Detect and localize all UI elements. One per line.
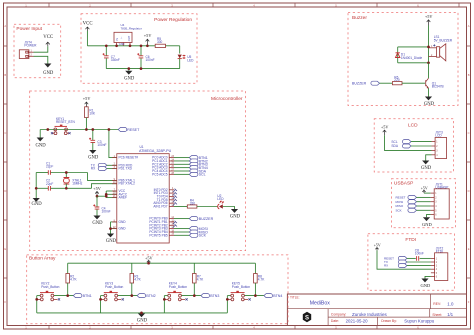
svg-text:2021-05-20: 2021-05-20 xyxy=(346,318,369,323)
resistor R4 330 xyxy=(187,205,197,208)
svg-text:GND: GND xyxy=(421,283,431,288)
ground xyxy=(421,279,428,283)
svg-text:RESET_BTN: RESET_BTN xyxy=(56,120,75,124)
power VCC xyxy=(46,42,50,46)
left zone letters xyxy=(4,24,6,304)
svg-text:Supun Kuruppu: Supun Kuruppu xyxy=(404,319,434,324)
svg-text:+5V: +5V xyxy=(425,14,434,19)
wire pin 4 to ground xyxy=(426,155,432,161)
svg-text:GND: GND xyxy=(421,166,432,171)
svg-text:BC547B: BC547B xyxy=(432,85,444,89)
svg-text:Company:: Company: xyxy=(331,313,347,317)
svg-text:220: 220 xyxy=(394,78,400,82)
svg-text:LCD: LCD xyxy=(435,134,442,138)
svg-text:C: C xyxy=(4,131,6,135)
ground xyxy=(44,64,51,68)
wire RESET through C8 xyxy=(407,257,416,259)
svg-text:A: A xyxy=(4,24,6,28)
wire TX to pin 2 xyxy=(407,261,431,263)
section box FTDI xyxy=(368,234,455,290)
wire TX to pin 2 xyxy=(107,164,117,166)
svg-text:1N4001_Diode: 1N4001_Diode xyxy=(401,56,422,60)
ground xyxy=(89,150,96,154)
svg-text:1/1: 1/1 xyxy=(447,312,453,317)
svg-text:7805_Regulator: 7805_Regulator xyxy=(121,26,142,30)
resistor R7 4.7K xyxy=(193,263,195,273)
wire button to ground rail xyxy=(226,296,228,313)
svg-text:SDA: SDA xyxy=(391,144,398,148)
wire R4 to LED xyxy=(197,206,218,208)
pin names right xyxy=(149,156,167,238)
section box Power Input xyxy=(14,24,61,78)
wire xtal2 to pin 10 xyxy=(92,184,117,189)
svg-text:GND: GND xyxy=(119,220,127,224)
svg-text:Microcontroller: Microcontroller xyxy=(211,96,243,102)
svg-text:+5V: +5V xyxy=(374,244,381,248)
svg-text:USBASP: USBASP xyxy=(394,180,413,186)
wire to GND xyxy=(34,56,48,63)
svg-text:+5V: +5V xyxy=(83,96,92,101)
svg-text:POWER: POWER xyxy=(24,43,37,47)
resistor R1 10K xyxy=(85,107,89,118)
svg-text:330: 330 xyxy=(157,40,163,44)
bottom edge zone ticks xyxy=(49,326,377,330)
svg-text:BUZZER: BUZZER xyxy=(199,217,214,221)
svg-text:PC6 RESET#: PC6 RESET# xyxy=(119,156,139,160)
svg-text:PB7 XTAL2: PB7 XTAL2 xyxy=(119,182,136,186)
section box LCD xyxy=(374,119,453,172)
svg-text:4.7K: 4.7K xyxy=(134,278,141,282)
svg-text:100nF: 100nF xyxy=(97,143,106,147)
svg-text:GND: GND xyxy=(119,42,125,46)
company logo S xyxy=(303,312,311,322)
global label BTN4 xyxy=(264,294,273,298)
svg-text:1.0: 1.0 xyxy=(447,301,454,306)
ground xyxy=(93,216,100,220)
svg-text:LED: LED xyxy=(187,58,194,62)
wire ground rail xyxy=(106,68,179,70)
wire SCL to pin 1 xyxy=(411,141,432,143)
title block outline xyxy=(287,294,466,326)
ground xyxy=(107,234,114,238)
svg-text:VCC: VCC xyxy=(43,35,53,40)
capacitor C7 330nF xyxy=(105,46,107,56)
svg-text:Push_Button: Push_Button xyxy=(232,285,250,289)
resistor R5 330 xyxy=(155,44,165,47)
svg-text:REV:: REV: xyxy=(433,302,441,306)
pin 1 xyxy=(29,51,34,53)
svg-text:GND: GND xyxy=(119,227,127,231)
wire VCC to rail xyxy=(86,31,88,46)
bottom zone numbers xyxy=(25,326,419,330)
wire RX to pin 3 xyxy=(107,168,117,170)
wire R6 to base xyxy=(402,82,425,84)
wire output rail xyxy=(166,45,180,47)
resistor R8 4.7K xyxy=(254,263,256,273)
svg-text:22pF: 22pF xyxy=(46,165,53,169)
wires labels to connector xyxy=(417,197,431,210)
svg-text:GND: GND xyxy=(137,319,148,324)
global label BTN2 xyxy=(189,159,198,163)
wire +5V down xyxy=(428,26,430,63)
global label MISO xyxy=(189,230,198,234)
wire PB3 to MOSI xyxy=(174,228,189,230)
resistor R3 4.7K xyxy=(131,263,133,273)
svg-text:330nF: 330nF xyxy=(111,58,120,62)
svg-text:GND: GND xyxy=(92,221,103,226)
svg-text:Date:: Date: xyxy=(331,319,339,323)
ground xyxy=(138,313,145,317)
title block REV column divider xyxy=(430,294,432,309)
svg-text:330: 330 xyxy=(190,202,196,206)
wire diode top xyxy=(398,46,429,48)
wire +5V to pin 3 xyxy=(385,135,432,150)
ground xyxy=(423,217,430,221)
svg-text:GND: GND xyxy=(424,102,435,107)
svg-text:+5V: +5V xyxy=(145,256,154,261)
wire reset net xyxy=(40,129,118,131)
resistor R6 220 xyxy=(392,82,402,85)
ground xyxy=(231,209,238,213)
svg-text:PD1 TXD: PD1 TXD xyxy=(119,167,133,171)
svg-text:GND: GND xyxy=(43,71,54,76)
svg-text:BTN3: BTN3 xyxy=(210,294,219,298)
wire pin 6 to ground xyxy=(427,215,431,218)
svg-text:4.7K: 4.7K xyxy=(70,278,77,282)
svg-text:E: E xyxy=(468,247,470,251)
wire button to ground rail xyxy=(163,296,165,313)
ground xyxy=(33,198,40,202)
svg-text:BUZZER: BUZZER xyxy=(352,82,367,86)
wire pin 6 to ground xyxy=(425,276,431,278)
wire R1 to reset net xyxy=(85,118,87,130)
wire +5V to pin 4 xyxy=(377,250,431,269)
svg-text:LCD: LCD xyxy=(408,122,418,128)
svg-text:A: A xyxy=(468,24,470,28)
top edge zone ticks xyxy=(49,3,459,7)
svg-text:100nF: 100nF xyxy=(102,210,111,214)
svg-text:Drawn By:: Drawn By: xyxy=(381,319,397,323)
LED U2 xyxy=(219,204,223,208)
svg-text:OUT: OUT xyxy=(127,35,131,41)
wire PB4 to MISO xyxy=(174,231,189,233)
wire +5V to pin 1 xyxy=(424,192,431,194)
title block Sheet column divider xyxy=(429,309,431,317)
global label SCL xyxy=(189,172,198,176)
svg-text:GND: GND xyxy=(106,239,117,244)
svg-text:FTDI: FTDI xyxy=(405,237,416,243)
global label SDA xyxy=(189,169,198,173)
title block row divider 2 xyxy=(328,316,466,318)
wire SDA to pin 2 xyxy=(411,145,432,147)
wire AIN1 PD7 to R4 xyxy=(174,206,187,208)
svg-text:TITLE:: TITLE: xyxy=(290,296,300,300)
svg-text:RESET: RESET xyxy=(127,128,140,132)
svg-text:AREF: AREF xyxy=(119,196,128,200)
pin 2 xyxy=(29,55,34,57)
svg-text:5V_BUZZER: 5V_BUZZER xyxy=(434,38,453,42)
ground xyxy=(39,130,41,138)
svg-text:GND: GND xyxy=(230,215,241,220)
connector JST4 xyxy=(19,50,29,59)
section box Button Array xyxy=(27,255,288,324)
title block logo cell divider xyxy=(327,309,329,326)
wire PB5 to SCK xyxy=(174,234,189,236)
svg-text:Zuroke Industries: Zuroke Industries xyxy=(352,312,388,317)
svg-text:MediBox: MediBox xyxy=(310,301,331,307)
transistor Q1 BC547B xyxy=(425,80,427,86)
svg-text:+5V: +5V xyxy=(93,186,102,191)
svg-text:PC5 ADC5: PC5 ADC5 xyxy=(152,172,168,176)
svg-text:ATMEGA_328P-PU: ATMEGA_328P-PU xyxy=(139,149,172,153)
svg-text:22pF: 22pF xyxy=(46,182,53,186)
capacitor C4 100nF xyxy=(96,196,98,207)
svg-text:Push_Button: Push_Button xyxy=(41,285,59,289)
global label BTN3 xyxy=(189,162,198,166)
regulator U4 7805 xyxy=(114,32,132,42)
svg-text:GND: GND xyxy=(124,76,135,81)
svg-text:GND: GND xyxy=(32,202,43,207)
svg-text:RX: RX xyxy=(384,264,388,268)
wire PB0 to BUZZER xyxy=(174,218,189,220)
svg-text:SCL: SCL xyxy=(199,173,206,177)
svg-text:16MHz: 16MHz xyxy=(72,182,83,186)
global label RESET xyxy=(118,128,127,132)
svg-text:LED: LED xyxy=(217,197,224,201)
svg-text:4.7K: 4.7K xyxy=(197,278,204,282)
ground xyxy=(425,97,432,101)
svg-text:100nF: 100nF xyxy=(146,58,155,62)
ground xyxy=(422,161,429,165)
top zone numbers xyxy=(25,3,419,7)
svg-text:D: D xyxy=(468,189,470,193)
section box USBASP xyxy=(391,179,455,228)
LED U5 xyxy=(178,55,182,59)
wire xtal1 to pin 9 xyxy=(88,173,117,181)
svg-text:Power Regulation: Power Regulation xyxy=(154,17,192,23)
wire LED to ground xyxy=(223,207,235,210)
svg-text:SCK: SCK xyxy=(199,234,207,238)
svg-text:Sheet:: Sheet: xyxy=(432,313,442,317)
section box Buzzer xyxy=(348,13,458,106)
wire RX to pin 3 xyxy=(407,265,431,267)
global label MOSI xyxy=(189,227,198,231)
wire to VCC xyxy=(34,46,48,52)
svg-text:B: B xyxy=(468,73,470,77)
svg-text:IN: IN xyxy=(115,38,119,41)
svg-text:B: B xyxy=(4,73,6,77)
wire +5V to VCC pins xyxy=(97,195,106,197)
svg-text:Push_Button: Push_Button xyxy=(169,285,187,289)
wire to LED xyxy=(179,46,181,54)
pin names left xyxy=(119,156,139,231)
global label BUZZER xyxy=(189,217,198,221)
wire xtal left leg xyxy=(35,173,37,199)
wire GND pins 8 22 xyxy=(111,221,117,223)
wire diode bottom xyxy=(398,62,429,64)
wire input rail xyxy=(87,45,155,47)
global label BTN1 xyxy=(73,294,82,298)
svg-text:+5V: +5V xyxy=(381,125,390,130)
diode D1 1N4001 xyxy=(397,47,399,63)
svg-text:BTN4: BTN4 xyxy=(273,294,282,298)
wire reset to pin 1 xyxy=(109,130,117,158)
svg-text:BTN1: BTN1 xyxy=(83,294,92,298)
svg-text:E: E xyxy=(4,247,6,251)
global label BTN3 xyxy=(201,294,210,298)
capacitor C6 100nF xyxy=(140,46,142,56)
pin numbers left xyxy=(113,156,116,229)
junction dots xyxy=(427,46,430,49)
no-connect marks xyxy=(173,189,177,193)
svg-text:GND: GND xyxy=(36,143,47,148)
svg-text:BTN2: BTN2 xyxy=(146,294,155,298)
svg-text:SCK: SCK xyxy=(396,208,402,212)
svg-text:10K: 10K xyxy=(89,111,96,115)
wire emitter to ground xyxy=(428,88,430,96)
section box Microcontroller xyxy=(30,91,246,251)
svg-text:GND: GND xyxy=(88,156,99,161)
svg-text:Button Array: Button Array xyxy=(29,256,56,262)
junction dots xtal xyxy=(65,171,68,174)
capacitor C3 100nF xyxy=(92,130,94,141)
right zone letters xyxy=(468,24,470,304)
svg-text:S: S xyxy=(305,316,309,322)
wire +5V rail xyxy=(68,262,256,264)
svg-text:VCC: VCC xyxy=(83,22,93,27)
pin numbers right xyxy=(171,156,174,236)
wires PC0-PC5 to labels xyxy=(174,158,189,175)
svg-text:+5V: +5V xyxy=(144,33,153,38)
wire to R6 xyxy=(380,82,393,84)
svg-text:PCINT5 PB5: PCINT5 PB5 xyxy=(149,233,167,237)
crystal Y1 XTAL1 16MHz xyxy=(65,173,67,178)
junction dots reset net xyxy=(46,128,49,131)
svg-text:AIN1 PD7: AIN1 PD7 xyxy=(153,205,167,209)
junction dots xyxy=(105,44,108,47)
svg-text:4.7K: 4.7K xyxy=(258,278,265,282)
svg-text:GND: GND xyxy=(422,222,432,227)
resistor R2 4.7K xyxy=(67,263,69,273)
svg-text:+5V: +5V xyxy=(421,186,428,190)
svg-text:Buzzer: Buzzer xyxy=(352,15,367,21)
title block Date column divider xyxy=(377,317,379,325)
title block row divider 1 xyxy=(287,308,466,310)
svg-text:D: D xyxy=(4,189,6,193)
wire collector xyxy=(428,63,430,79)
section box Power Regulation xyxy=(81,14,197,84)
left edge zone ticks xyxy=(4,46,8,278)
global label BTN4 xyxy=(189,166,198,170)
global label BTN2 xyxy=(137,294,146,298)
ground xyxy=(128,69,130,71)
svg-text:100nF: 100nF xyxy=(415,252,424,256)
wire ground rail xyxy=(37,312,228,314)
capacitor C8 100nF xyxy=(417,256,419,261)
right edge zone ticks xyxy=(467,46,471,278)
global label SCK xyxy=(189,233,198,237)
wire button to ground rail xyxy=(100,296,102,313)
svg-text:Power Input: Power Input xyxy=(16,26,42,32)
global label BTN1 xyxy=(189,156,198,160)
svg-text:C: C xyxy=(468,131,470,135)
wire button to ground rail xyxy=(36,296,38,313)
svg-text:Push_Button: Push_Button xyxy=(105,285,123,289)
